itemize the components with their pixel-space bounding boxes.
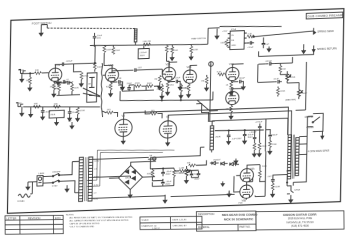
label master: [285, 98, 296, 101]
switch S1 power: [43, 172, 63, 178]
svg-text:220K: 220K: [261, 146, 267, 148]
svg-text:(MASTER): (MASTER): [285, 98, 296, 101]
svg-text:DATE 1-21-93: DATE 1-21-93: [172, 218, 187, 221]
capacitor C1 22uF bypass: [54, 80, 74, 84]
ground switch: [65, 185, 69, 192]
svg-text:2.2K: 2.2K: [247, 33, 252, 35]
svg-text:+100uF: +100uF: [249, 132, 257, 134]
ground C3: [121, 85, 125, 90]
tone stack resistor R17: [134, 83, 141, 88]
resistor R12 V3A cathode: [225, 80, 233, 95]
svg-text:CT: CT: [94, 193, 98, 195]
resistor R6 100K V1B plate: [103, 45, 112, 53]
svg-text:350V: 350V: [140, 55, 146, 57]
switch S2 standby: [43, 180, 63, 188]
svg-text:22uF: 22uF: [175, 77, 181, 79]
svg-text:PART NO.: PART NO.: [240, 226, 251, 229]
wire LOW run: [23, 104, 100, 109]
resistor R42 1M8: [54, 83, 61, 96]
svg-text:220K: 220K: [272, 144, 278, 146]
svg-text:.01uF: .01uF: [273, 78, 279, 80]
svg-text:220K: 220K: [183, 88, 189, 90]
capacitor C17 filter: [268, 131, 278, 140]
wire J1 to grid: [23, 73, 34, 75]
svg-text:500P: 500P: [302, 93, 308, 95]
resistor R26 zobel 220R: [271, 183, 281, 197]
border frame: [7, 9, 343, 214]
ground at J1: [20, 73, 24, 82]
wire HV to bridge: [92, 159, 156, 198]
resistor R43 220K: [71, 83, 80, 95]
wire V3 plates right: [232, 64, 243, 92]
resistor R38 bleeder: [173, 168, 182, 179]
jack J1 HIGH input: [18, 69, 25, 73]
transformer T1 power: [79, 157, 93, 201]
tube V3A: [226, 62, 240, 81]
jack J2 LOW input: [16, 103, 23, 107]
svg-text:450V: 450V: [165, 183, 171, 185]
tube V1A: [48, 63, 62, 82]
foot switch label: [32, 21, 52, 26]
svg-text:.1uF 630V: .1uF 630V: [231, 138, 242, 140]
resistor R31 220K: [112, 47, 121, 54]
svg-text:220K: 220K: [193, 49, 199, 51]
capacitor C6: [41, 107, 52, 120]
rectifier BR1: [118, 165, 142, 190]
resistor R40 100K: [220, 39, 228, 46]
breaker CB1: [37, 173, 45, 186]
label 4 ohm tap: [306, 127, 313, 129]
svg-text:1M: 1M: [26, 80, 29, 82]
svg-text:+10uF: +10uF: [247, 47, 254, 49]
svg-text:10K: 10K: [174, 50, 178, 52]
capacitor C18 50uF 450V: [161, 168, 172, 176]
resistor R10 V2B cathode: [183, 83, 191, 98]
wire channel merge diagonals: [83, 87, 100, 97]
resistor R22 220K: [276, 86, 285, 96]
ground V1B low tap: [68, 120, 74, 128]
tube V4 power: [115, 113, 133, 136]
svg-text:SPRING SEND: SPRING SEND: [317, 30, 334, 34]
capacitor C13 100uF 350V: [243, 130, 255, 144]
label spring return: [317, 47, 337, 51]
ground C4: [178, 85, 182, 90]
svg-text:47K: 47K: [157, 88, 161, 90]
title tag box top right: [306, 12, 343, 19]
capacitor C12 .1uF 630V: [227, 130, 242, 144]
svg-text:250R: 250R: [215, 136, 221, 138]
arrow speaker out: [321, 131, 324, 139]
node A: [209, 62, 214, 67]
wire V1B grid: [103, 74, 106, 76]
svg-text:.022: .022: [137, 67, 142, 69]
svg-text:5A: 5A: [149, 154, 152, 157]
resistor R25 bleed: [257, 141, 267, 156]
tube V3B: [226, 86, 240, 105]
resistor R41 2.2K: [247, 33, 254, 38]
svg-text:470K: 470K: [83, 75, 89, 77]
wire V6 couple: [234, 165, 260, 192]
diode D2: [221, 162, 228, 165]
svg-text:100uF: 100uF: [272, 134, 279, 136]
svg-text:1.8K 2W: 1.8K 2W: [142, 41, 151, 43]
svg-text:4 OHM MAIN SPKR: 4 OHM MAIN SPKR: [308, 149, 330, 153]
wire filter caps top: [255, 130, 271, 134]
svg-text:6.3V: 6.3V: [94, 185, 99, 187]
svg-text:SPKR: SPKR: [294, 189, 300, 191]
description box: [196, 211, 258, 231]
wire V1B plate: [104, 53, 112, 69]
capacitor C11: [273, 78, 282, 84]
svg-text:IN: IN: [231, 35, 234, 37]
resistor R7 cathode V1B: [106, 81, 113, 96]
wire V2A plate: [169, 62, 177, 67]
svg-text:100K: 100K: [147, 83, 153, 85]
tube V6B: [240, 185, 254, 203]
svg-text:(615) 871-4500: (615) 871-4500: [291, 224, 309, 228]
wire V4 grid feed: [102, 109, 150, 115]
wire spring return run: [259, 49, 314, 56]
svg-text:FB: FB: [231, 40, 234, 42]
foot switch stub wire: [41, 25, 47, 31]
svg-text:BR1: BR1: [125, 178, 130, 180]
capacitor C20 10uF: [93, 33, 103, 41]
svg-text:450V: 450V: [166, 174, 172, 176]
capacitor C10 .047: [265, 60, 274, 65]
svg-text:1K5: 1K5: [170, 85, 175, 87]
capacitor C5 100uF: [231, 77, 245, 84]
company box: [256, 211, 344, 230]
ground V6 return: [227, 190, 231, 196]
svg-text:1K5: 1K5: [107, 109, 112, 111]
tube V2B: [183, 65, 197, 84]
svg-text:VOLT TO CHASSIS GND: VOLT TO CHASSIS GND: [70, 225, 95, 228]
revision table: [5, 215, 63, 234]
resistor R28 V6 plate: [258, 166, 267, 178]
svg-text:.0047: .0047: [45, 111, 51, 113]
label PT secondary: [94, 161, 100, 201]
svg-text:.047uF: .047uF: [265, 61, 273, 63]
capacitor C22 10uF: [246, 41, 254, 49]
tube V5 power: [159, 115, 177, 139]
wire filter column: [218, 118, 288, 153]
svg-text:+100uF: +100uF: [139, 52, 147, 54]
ground at foot switch: [39, 31, 43, 36]
resistor R29 100K V2A plate: [165, 44, 174, 67]
resistor R5 470K: [79, 72, 89, 87]
diode D1: [212, 161, 219, 164]
capacitor C14 +470uF: [255, 121, 263, 130]
wire B+ riser: [150, 147, 204, 157]
svg-text:NASHVILLE, TN 37210: NASHVILLE, TN 37210: [286, 220, 314, 224]
capacitor C27: [64, 79, 72, 85]
ground near IC input: [215, 29, 219, 39]
capacitor C16 filter: [249, 132, 257, 142]
resistor R33 filter bleed: [252, 142, 256, 157]
svg-text:8.2K: 8.2K: [217, 71, 222, 73]
resistor R9 V2A cathode: [166, 80, 175, 95]
label diodes: [213, 159, 221, 161]
svg-text:SCALE: SCALE: [141, 218, 149, 221]
wire screen riser: [210, 61, 211, 121]
svg-text:P4B: P4B: [238, 203, 243, 205]
svg-text:MCK 50 SCHEMATIC: MCK 50 SCHEMATIC: [224, 217, 254, 221]
svg-text:TRAF SWITCH: TRAF SWITCH: [191, 37, 206, 41]
capacitor C19 50uF 450V: [161, 179, 172, 187]
capacitor C25 50uF: [194, 171, 200, 181]
resistor R35 decouple: [170, 44, 178, 60]
capacitor C7: [68, 107, 78, 122]
label traf switch: [191, 37, 206, 41]
resistor R14 68K: [33, 103, 40, 108]
wire footswitch dashed run: [47, 25, 136, 32]
svg-text:.022uF: .022uF: [66, 61, 74, 63]
svg-text:68K: 68K: [54, 103, 58, 105]
svg-text:33K: 33K: [35, 70, 39, 72]
svg-text:STBY: STBY: [52, 185, 58, 187]
resistor R4 100K plate: [93, 60, 102, 72]
label spring send: [317, 30, 334, 34]
svg-text:100K: 100K: [106, 49, 112, 51]
ground tap LOW: [29, 107, 33, 117]
capacitor C21 filter can: [138, 46, 149, 59]
wire V1A out node: [74, 45, 96, 71]
ground AC: [26, 182, 30, 190]
wire bridge out: [109, 161, 156, 198]
svg-text:MATERIAL: MATERIAL: [198, 226, 210, 229]
svg-text:100uF: 100uF: [239, 77, 246, 79]
wire low mid net: [57, 82, 81, 95]
tone wire mesh: [118, 84, 159, 92]
svg-text:CHECKED BY: CHECKED BY: [173, 225, 188, 227]
tube V1B: [105, 63, 119, 82]
svg-text:V6A: V6A: [250, 168, 255, 171]
label 4 ohm: [308, 149, 330, 153]
resistor R1 1M: [26, 73, 32, 91]
label 16 ohm: [305, 117, 314, 119]
svg-text:450V: 450V: [194, 179, 200, 181]
resistor R36 decouple: [189, 44, 199, 60]
svg-text:ON/OFF: ON/OFF: [52, 172, 61, 174]
svg-text:100K: 100K: [169, 49, 175, 51]
resistor R15 68K: [53, 103, 60, 108]
wire AC to PT: [63, 161, 79, 193]
capacitor C15 zobel .047: [267, 176, 275, 183]
svg-text:.68: .68: [118, 78, 122, 80]
capacitor C2 .022 coupling: [62, 61, 73, 66]
ground after 1uF: [267, 46, 271, 51]
capacitor C23 1uF: [262, 37, 270, 48]
svg-text:REVISION: REVISION: [28, 216, 41, 220]
wire screen rail: [212, 119, 264, 152]
resistor R27 bias: [187, 160, 207, 167]
ground V1A heater: [56, 78, 60, 86]
svg-text:100R: 100R: [147, 173, 153, 175]
svg-text:SPRING RETURN: SPRING RETURN: [317, 47, 337, 51]
svg-text:1N4007: 1N4007: [213, 159, 221, 161]
svg-text:16 OHM: 16 OHM: [305, 117, 314, 119]
wire cord to breaker: [28, 182, 37, 194]
wire V2B plate: [190, 65, 197, 70]
svg-text:15K: 15K: [187, 162, 191, 164]
svg-text:+470uF: +470uF: [255, 121, 263, 123]
resistor R3 1K5 cathode: [49, 81, 55, 97]
wire controls mesh: [257, 57, 306, 112]
label P4B: [238, 203, 243, 205]
ground at J2: [20, 106, 24, 116]
choke L2: [210, 126, 221, 150]
svg-text:100K: 100K: [220, 42, 226, 44]
pot VR4 bias: [179, 166, 190, 184]
resistor R23 grid stopper V4: [106, 109, 118, 117]
sheet group (scan shear): [7, 9, 343, 214]
svg-text:.047: .047: [267, 176, 272, 178]
IC U1 reverb driver: [227, 28, 246, 50]
wire preamp B+ bus: [90, 42, 200, 49]
tube V2A: [162, 62, 176, 81]
svg-text:+15V: +15V: [222, 30, 228, 32]
resistor R8 V2A plate 100K: [154, 75, 162, 89]
pot VR5 channel volume: [87, 73, 97, 103]
svg-text:120VAC: 120VAC: [17, 200, 25, 203]
wire OT secondary taps: [293, 116, 323, 186]
wire bus drop at coil: [94, 40, 135, 48]
svg-text:HIGH: HIGH: [18, 70, 24, 72]
pot VR3 master: [297, 86, 307, 99]
svg-text:GND: GND: [231, 45, 236, 47]
resistor R39 1.47R: [179, 167, 187, 172]
ground V4 cathode: [121, 136, 125, 144]
wire channel cable: [101, 63, 104, 117]
svg-text:220K: 220K: [74, 87, 80, 89]
diode D3: [230, 162, 237, 165]
scale/date box: [140, 216, 202, 230]
svg-text:CAPS IN UF UNLESS NOTED: CAPS IN UF UNLESS NOTED: [69, 222, 99, 225]
resistor R21 1M: [279, 63, 286, 74]
resistor R16 470K: [76, 107, 86, 121]
resistor R13 V3B cathode: [225, 104, 233, 119]
svg-text:220K: 220K: [280, 91, 286, 93]
wire bus to reverb rail: [200, 28, 220, 45]
svg-text:IC1A: IC1A: [231, 28, 236, 31]
wire IC out to spring send: [253, 31, 314, 37]
ground V6 top: [234, 158, 238, 166]
svg-text:1uF: 1uF: [265, 44, 269, 46]
coil L1: [134, 29, 137, 42]
transformer T2 output: [287, 135, 299, 179]
svg-text:1M: 1M: [282, 68, 285, 70]
wire bottom run: [118, 192, 235, 198]
tone stack capacitor C9: [127, 83, 133, 91]
svg-text:220R: 220R: [275, 186, 281, 188]
resistor R11 V3A grid 8.2K: [217, 71, 226, 76]
ground spring top: [302, 44, 306, 53]
svg-text:NOTES:: NOTES:: [66, 214, 75, 216]
svg-text:LETTER: LETTER: [6, 216, 16, 220]
svg-text:470K: 470K: [290, 77, 296, 79]
switch S3 impedance: [311, 113, 323, 131]
pot VR2 reverb: [286, 71, 296, 83]
resistor R20 tail: [179, 83, 189, 98]
capacitor C24 50uF: [190, 171, 200, 178]
fuse F2 5A: [93, 154, 156, 162]
ground V6B: [221, 181, 247, 201]
svg-text:6.3V: 6.3V: [94, 199, 99, 201]
wire bias row: [210, 162, 239, 165]
resistor R32 V3A grid leak: [201, 75, 209, 91]
resistor R34 filter: [268, 139, 277, 154]
svg-text:ECN: ECN: [55, 216, 61, 220]
bottom strip group: [5, 210, 344, 234]
spring return arrow: [312, 45, 315, 52]
wire zobel tap: [273, 175, 288, 187]
resistor R19 slope: [156, 84, 164, 99]
svg-text:25V: 25V: [97, 38, 101, 40]
svg-text:ALL RESISTORS 1/4 WATT, 5% TOL: ALL RESISTORS 1/4 WATT, 5% TOLERANCE UNL…: [69, 216, 132, 220]
capacitor C26 coupling V1B: [112, 66, 166, 75]
svg-text:1818 ELM HILL PIKE: 1818 ELM HILL PIKE: [288, 216, 313, 220]
wire V4 plate to OT: [123, 107, 288, 141]
wire V1A plate up: [55, 64, 62, 68]
svg-text:1M: 1M: [201, 81, 204, 83]
resistor R2 33K: [34, 70, 48, 75]
svg-text:1-BKR: 1-BKR: [38, 173, 45, 175]
pot VR1 volume: [49, 110, 64, 125]
wire V5 plate to OT: [167, 111, 291, 175]
ground C5: [241, 84, 245, 89]
svg-text:ALL CAPACITORS RATED 100 VOLT: ALL CAPACITORS RATED 100 VOLT MIN UNLESS…: [69, 219, 128, 223]
wire V3B diag: [197, 99, 218, 111]
svg-text:220K: 220K: [115, 50, 121, 52]
svg-text:1.47R: 1.47R: [179, 168, 185, 170]
tone stack capacitor C8: [119, 83, 124, 91]
svg-text:4 OHM: 4 OHM: [306, 127, 313, 129]
wire reverb B+ rail: [220, 24, 282, 28]
svg-text:470K: 470K: [80, 110, 86, 112]
tube V6A: [240, 168, 255, 182]
svg-text:1M A: 1M A: [50, 113, 56, 116]
wire preamp long run: [120, 97, 213, 103]
resistor R37 filter: [146, 168, 154, 181]
jack J3 speaker: [287, 185, 301, 202]
ground V5 cathode: [166, 138, 170, 146]
capacitor C4 V2A bypass: [168, 77, 181, 85]
wire step down: [196, 103, 215, 122]
svg-text:350V: 350V: [247, 137, 253, 139]
AC cord coil: [17, 194, 32, 203]
label +15V: [222, 30, 228, 32]
tone stack resistor R18: [146, 83, 153, 88]
svg-text:1M: 1M: [88, 83, 91, 85]
notes text: [66, 214, 133, 229]
capacitor C3 V1B bypass: [111, 78, 123, 85]
wire heater run: [87, 147, 175, 186]
resistor R24 grid stopper V5: [150, 110, 162, 119]
wire V6 right: [255, 151, 266, 196]
spring send arrow: [314, 28, 316, 34]
svg-text:1-26137: 1-26137: [152, 228, 160, 230]
svg-text:68K: 68K: [34, 103, 38, 105]
svg-text:22uF: 22uF: [68, 81, 74, 83]
svg-text:470K: 470K: [135, 83, 141, 85]
resistor R30 1.8K 2W: [142, 41, 151, 46]
svg-text:DESCRIPTION: DESCRIPTION: [198, 213, 215, 216]
wire bias cluster: [150, 157, 174, 187]
svg-text:1M: 1M: [154, 79, 157, 81]
svg-text:100K: 100K: [262, 166, 268, 168]
wire run drops: [120, 88, 213, 103]
ground mid bottom: [163, 195, 167, 203]
